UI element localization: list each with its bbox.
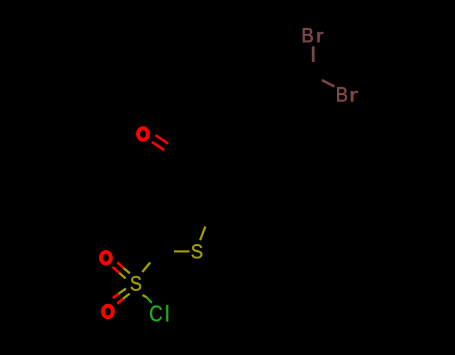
bond C=O carbonyl double bond upper segment (O half, red) <box>156 135 169 143</box>
atom O1 (sulfonyl oxygen label, upper left) <box>101 252 111 264</box>
bond C=O carbonyl double bond lower segment (O half, red) <box>152 142 164 150</box>
atom Cl (sulfonyl chloride label) <box>150 306 162 322</box>
bond S2=O2 line B red half <box>117 299 123 304</box>
bond S2=O1 line B olive half <box>119 273 125 278</box>
atom O2 (sulfonyl oxygen label, lower left) <box>103 306 113 318</box>
bond S2=O1 line A olive half <box>124 268 130 273</box>
bond S2=O2 line B olive half <box>123 294 130 299</box>
bond S2=O2 line A olive half <box>119 289 127 294</box>
atom S1 (thiophene ring sulfur label) <box>192 244 203 258</box>
bond S2=O1 line A red half <box>117 262 123 268</box>
bond C-Br2 (Br half, maroon diagonal) <box>322 80 335 87</box>
bond S2-Cl green half <box>147 297 152 303</box>
bond S2=O1 line B red half <box>113 267 120 273</box>
bond S1-C5 thiophene (S half, olive diagonal) <box>200 227 205 241</box>
atom S2 (sulfonyl sulfur label) <box>131 276 141 291</box>
bond S2-Cl olive half <box>143 295 147 297</box>
bond S1-C2 thiophene (S half, olive horizontal) <box>174 250 190 252</box>
atom Br2 (dibromomethyl bromine label, lower) <box>337 87 347 101</box>
atom Br1 (dibromomethyl bromine label, upper) <box>303 28 313 42</box>
bond S2=O2 line A red half <box>113 294 119 298</box>
atom O (carbonyl oxygen label) <box>138 128 148 140</box>
bond S2-C2 (S half, olive diagonal up-right) <box>142 263 150 273</box>
bond C-Br1 (Br half, maroon vertical) <box>312 46 315 62</box>
